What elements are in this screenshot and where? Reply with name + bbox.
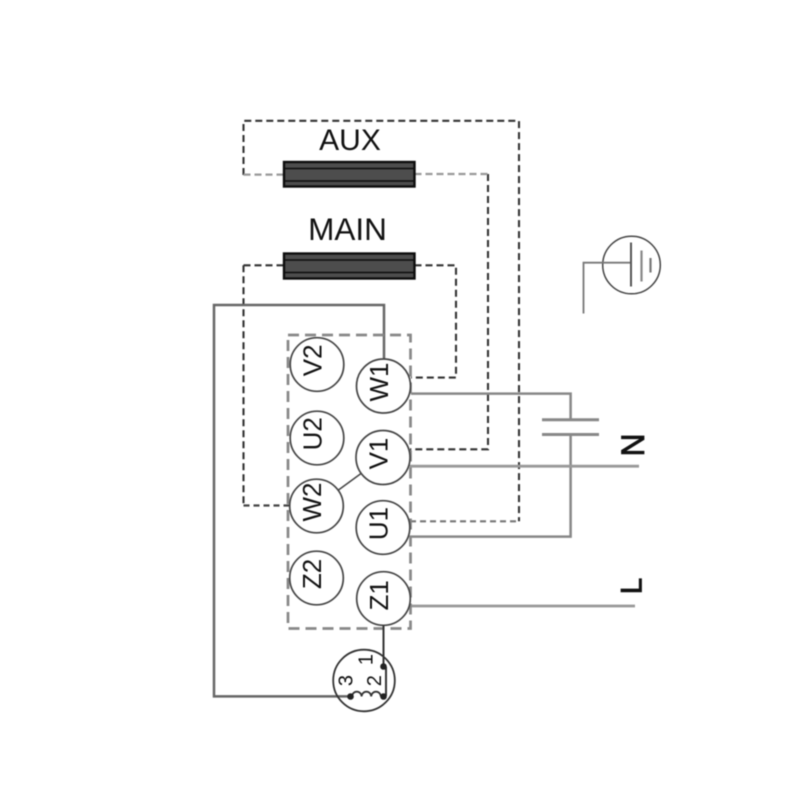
svg-text:U1: U1 — [363, 507, 393, 540]
svg-text:3: 3 — [335, 675, 357, 686]
svg-text:1: 1 — [356, 654, 378, 665]
svg-text:W1: W1 — [364, 363, 394, 402]
svg-text:V1: V1 — [363, 438, 393, 470]
svg-text:MAIN: MAIN — [308, 211, 387, 247]
svg-text:V2: V2 — [297, 344, 327, 376]
svg-text:W2: W2 — [297, 483, 327, 522]
svg-text:AUX: AUX — [319, 124, 381, 157]
svg-text:2: 2 — [364, 675, 386, 686]
svg-text:U2: U2 — [297, 417, 327, 450]
svg-text:Z1: Z1 — [364, 580, 394, 610]
svg-text:L: L — [616, 578, 649, 594]
svg-text:Z2: Z2 — [297, 559, 327, 589]
svg-text:N: N — [615, 433, 651, 456]
